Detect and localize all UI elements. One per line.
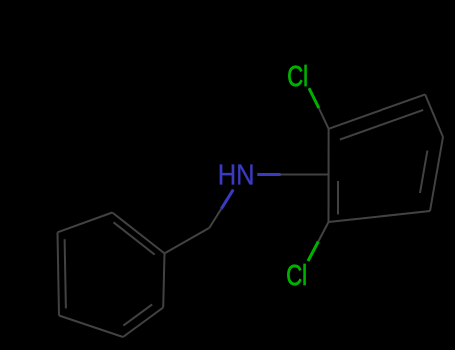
svg-text:Cl: Cl xyxy=(287,61,308,92)
svg-text:Cl: Cl xyxy=(286,260,307,291)
svg-text:HN: HN xyxy=(218,158,255,191)
